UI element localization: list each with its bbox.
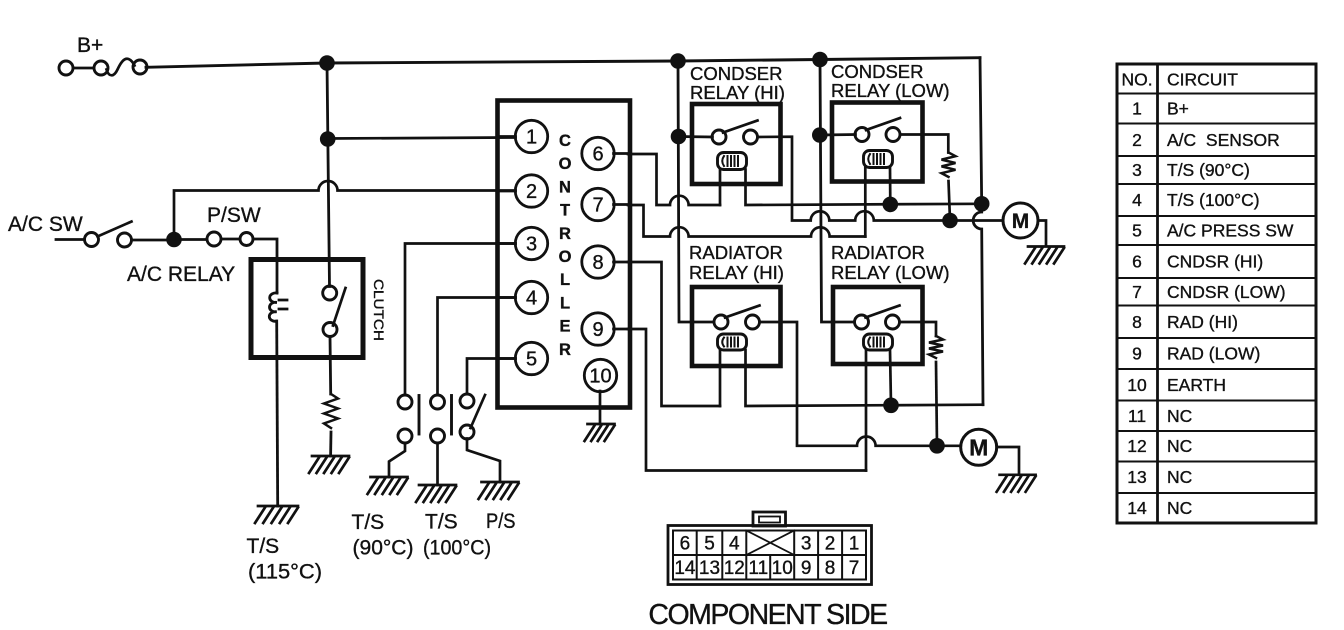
svg-text:5: 5 (526, 349, 537, 371)
svg-text:11: 11 (1128, 406, 1146, 426)
switch A/C SW contact left (85, 233, 99, 247)
junction: rail / condser HI switch (671, 129, 687, 145)
switch T/S 90 bottom contact (398, 429, 412, 443)
condser HI switch blade (723, 121, 758, 133)
controller pin 7 (582, 188, 614, 220)
svg-text:6: 6 (592, 144, 603, 166)
svg-text:9: 9 (801, 558, 812, 579)
condser LOW switch contact right (886, 128, 900, 142)
ground: pin 10 earth (585, 424, 615, 441)
svg-text:T/S: T/S (247, 535, 280, 558)
stub wire pin 1 (500, 135, 516, 138)
A/C relay coil (inductor) (269, 293, 287, 321)
junction: A/C SW node (166, 232, 182, 248)
stub wire pin 3 (500, 242, 516, 245)
svg-text:6: 6 (680, 534, 691, 555)
switch P/S bottom contact (460, 425, 474, 439)
wire: junction to controller pin 1 (328, 138, 516, 139)
junction: resistor / radiator motor line (929, 438, 945, 454)
svg-text:A/C PRESS SW: A/C PRESS SW (1167, 221, 1294, 241)
ground: T/S 90 (368, 477, 408, 494)
relay box RADIATOR RELAY (LOW) (833, 287, 923, 364)
svg-text:2: 2 (1132, 130, 1142, 150)
pin table column divider (1156, 64, 1159, 523)
ground below A/C relay resistor (309, 456, 349, 473)
svg-text:P/S: P/S (486, 510, 516, 533)
wire: condser LOW coil left lead riser (from pin 7 line) (864, 168, 867, 237)
switch P/S top contact (460, 394, 474, 408)
wire: P/SW to A/C relay coil (253, 239, 277, 293)
svg-text:EARTH: EARTH (1167, 375, 1226, 395)
ground: radiator motor (997, 475, 1036, 492)
switch P/S blade (471, 395, 486, 428)
relay box RADIATOR RELAY (HI) (692, 287, 781, 366)
controller pin 4 (515, 281, 547, 313)
svg-text:COMPONENT SIDE: COMPONENT SIDE (648, 599, 887, 630)
junction: condser LOW coil / coil feed line (883, 197, 899, 213)
wire: pin 3 to T/S 90 switch (405, 244, 516, 396)
switch T/S 100 top contact (431, 395, 445, 409)
wire: condser LOW coil right lead to coil feed line (889, 168, 892, 205)
wire: A/C SW to junction (132, 239, 168, 242)
ground: condenser motor (1025, 247, 1064, 264)
radiator LOW switch contact left (855, 315, 869, 329)
relay box CONDSER RELAY (LOW) (832, 103, 923, 182)
resistor below A/C relay (324, 394, 338, 428)
radiator HI switch contact right (746, 315, 760, 329)
wire: T/S 90 to ground (389, 443, 405, 477)
svg-text:8: 8 (592, 252, 603, 274)
radiator HI relay coil (718, 334, 747, 350)
wire: T/S 100 to ground (436, 443, 439, 485)
svg-text:P/SW: P/SW (207, 204, 261, 227)
wire: radiator HI switch out down to radiator motor line (760, 322, 961, 446)
wire: pin 9 to radiator LOW coil (628, 329, 866, 471)
wire: vertical rail from B+ junction down to A/C relay contact (327, 63, 330, 287)
wire: pin 10 to earth ground (599, 391, 602, 424)
svg-text:7: 7 (592, 195, 603, 217)
wire: junction to P/SW (181, 238, 207, 241)
wire: rail tap to condser LOW switch (820, 133, 856, 136)
svg-text:5: 5 (1132, 221, 1142, 241)
junction: radiator LOW coil / coil feed line (883, 398, 899, 414)
motor M condenser fan (1003, 203, 1038, 238)
controller pin 8 (582, 246, 614, 278)
junction: left rail / pin 1 wire (320, 131, 336, 147)
controller pin 9 (582, 313, 614, 345)
connector keyed cell X (746, 531, 794, 556)
wire: right B+ rail feeding relay coils (jogs around condenser motor line) (973, 58, 983, 405)
controller pin 2 (515, 175, 547, 207)
wire: A/C SW node riser to pin 2 (hop over rail) (174, 181, 516, 240)
svg-text:A/C RELAY: A/C RELAY (127, 263, 235, 286)
controller pin 1 (515, 120, 547, 152)
stub wire pin 2 (500, 190, 516, 193)
svg-text:1: 1 (849, 534, 860, 555)
svg-text:11: 11 (748, 558, 768, 579)
svg-text:NC: NC (1167, 467, 1192, 487)
svg-text:1: 1 (526, 127, 537, 149)
svg-text:T/S: T/S (425, 511, 458, 534)
svg-text:7: 7 (1132, 282, 1142, 302)
condser LOW switch contact left (855, 128, 869, 142)
wire: condser HI coil right lead to B+ coil feed line (746, 170, 982, 206)
svg-text:12: 12 (1127, 436, 1146, 456)
svg-text:8: 8 (1132, 312, 1142, 332)
svg-text:12: 12 (724, 558, 745, 579)
controller pin 5 (515, 342, 547, 374)
svg-text:RADIATOR: RADIATOR (689, 242, 783, 263)
svg-text:2: 2 (825, 534, 836, 555)
svg-text:8: 8 (825, 558, 836, 579)
wire: resistor to radiator motor line (936, 362, 937, 446)
wire: pin 7 to condser LOW coil (628, 205, 865, 237)
svg-text:RAD (HI): RAD (HI) (1167, 312, 1238, 332)
radiator HI switch contact left (714, 315, 728, 329)
svg-text:4: 4 (729, 534, 740, 555)
svg-text:CNDSR (HI): CNDSR (HI) (1167, 252, 1263, 272)
wire: condenser motor to ground (1038, 221, 1046, 246)
connector row divider (673, 554, 866, 556)
svg-text:RADIATOR: RADIATOR (831, 242, 925, 263)
svg-text:CONDSER: CONDSER (831, 61, 924, 82)
svg-text:NO.: NO. (1121, 70, 1152, 90)
wire: radiator LOW switch out to dropping resistor (900, 322, 937, 336)
stub wire pin 4 (500, 296, 516, 299)
ground: T/S (115C) (255, 506, 298, 523)
svg-text:NC: NC (1167, 498, 1192, 518)
svg-text:CLUTCH: CLUTCH (371, 279, 386, 341)
wire: radiator LOW coil right lead to coil feed line (890, 350, 891, 405)
wire: rail from B+ to condser LOW contact and radiator LOW contact (820, 60, 855, 323)
svg-text:3: 3 (801, 534, 812, 555)
svg-text:5: 5 (704, 534, 715, 555)
pin table row lines (1117, 94, 1316, 494)
wire: pin 8 to radiator HI coil (628, 262, 720, 406)
A/C relay clutch blade (333, 288, 346, 326)
svg-text:RELAY (LOW): RELAY (LOW) (831, 80, 950, 101)
wire: pin 6 to condser HI coil (628, 154, 720, 205)
svg-text:(100°C): (100°C) (423, 537, 491, 560)
controller pin 6 (582, 137, 614, 169)
svg-text:13: 13 (1127, 467, 1146, 487)
radiator HI switch blade (725, 306, 760, 318)
svg-text:(90°C): (90°C) (353, 537, 414, 560)
condser HI relay coil (718, 153, 747, 170)
connector tab (753, 512, 786, 526)
wire: radiator HI coil left lead (to pin 8 line) (719, 350, 722, 406)
ground: T/S 100 (416, 485, 456, 502)
ground: P/S (479, 482, 519, 499)
wire: coil to T/S(115) ground (277, 321, 278, 506)
svg-text:14: 14 (674, 558, 696, 579)
radiator LOW relay coil (864, 334, 893, 350)
svg-text:7: 7 (849, 558, 860, 579)
condser LOW relay coil (864, 151, 893, 168)
junction: rail / condser coil feed (974, 196, 990, 212)
svg-text:M: M (1012, 210, 1030, 233)
svg-text:RELAY (HI): RELAY (HI) (690, 82, 785, 103)
resistor: radiator motor dropping (929, 336, 943, 358)
switch P/SW contact right (240, 233, 253, 246)
wire: condser LOW switch out to dropping resistor (900, 135, 948, 153)
svg-text:RAD (LOW): RAD (LOW) (1167, 344, 1260, 364)
wire: P/S to ground (467, 439, 500, 483)
fuse F1 terminals (59, 61, 73, 75)
svg-text:10: 10 (1127, 375, 1147, 395)
svg-text:13: 13 (699, 558, 720, 579)
wire: resistor to condenser motor line (949, 181, 951, 221)
pin table frame (1117, 64, 1316, 523)
svg-text:(115°C): (115°C) (248, 561, 322, 584)
junction: B+ line / left rail (319, 55, 335, 71)
junction: resistor / condenser motor line (942, 213, 958, 229)
A/C relay clutch contact bottom (323, 323, 337, 337)
condser LOW switch blade (866, 118, 900, 130)
wire: pin 4 to T/S 100 switch (438, 298, 516, 396)
svg-text:RELAY (LOW): RELAY (LOW) (831, 262, 950, 283)
svg-text:3: 3 (1132, 160, 1142, 180)
svg-text:RELAY (HI): RELAY (HI) (689, 262, 784, 283)
svg-text:9: 9 (1132, 344, 1142, 364)
wire: radiator motor to ground (997, 447, 1019, 474)
motor M radiator fan (961, 429, 997, 465)
svg-text:10: 10 (589, 366, 611, 388)
svg-text:10: 10 (772, 558, 793, 579)
wire: condser HI coil left lead (to pin 6 line) (719, 170, 722, 206)
junction: rail / condser LOW switch (812, 127, 828, 143)
switch P/SW contact left (207, 232, 221, 246)
stub wire pin 8 (614, 261, 629, 264)
svg-text:4: 4 (526, 288, 537, 310)
switch T/S 90 top contact (398, 395, 412, 409)
A/C relay clutch contact top (323, 286, 337, 300)
stub wire pin 7 (614, 203, 629, 206)
wire: B+ top feed line (146, 58, 980, 68)
condser HI switch contact right (744, 130, 758, 144)
svg-text:T/S: T/S (352, 511, 385, 534)
stub wire pin 9 (614, 328, 629, 331)
junction: B+ / condser HI rail (670, 53, 686, 69)
switch A/C SW blade (98, 222, 132, 237)
svg-text:CIRCUIT: CIRCUIT (1167, 70, 1238, 90)
wire: resistor to ground (329, 432, 332, 456)
svg-text:NC: NC (1167, 406, 1192, 426)
wire: clutch contact to resistor (329, 337, 333, 395)
wire: condser HI switch out, down to condenser motor line (758, 137, 1003, 221)
connector inner frame (673, 531, 866, 580)
condser HI switch contact left (712, 130, 726, 144)
switch A/C SW contact right (118, 233, 132, 247)
svg-text:A/C SW: A/C SW (8, 213, 83, 236)
controller box (498, 101, 631, 408)
svg-text:14: 14 (1127, 498, 1147, 518)
wire: rail from B+ to condser HI contact and radiator HI contact (678, 61, 714, 322)
svg-text:CNDSR (LOW): CNDSR (LOW) (1167, 282, 1286, 302)
svg-text:CONDSER: CONDSER (690, 63, 783, 84)
wire: rail tap to condser HI switch (679, 135, 713, 138)
stub wire pin 6 (614, 152, 629, 155)
resistor: condser motor dropping (942, 153, 956, 177)
svg-text:B+: B+ (1167, 99, 1189, 119)
svg-text:T/S (100°C): T/S (100°C) (1167, 190, 1260, 210)
relay box A/C RELAY (251, 260, 363, 358)
svg-text:4: 4 (1132, 190, 1142, 210)
connector cell dividers (697, 531, 842, 580)
svg-text:9: 9 (592, 319, 603, 341)
wire between B+ terminals (73, 67, 94, 70)
svg-text:3: 3 (526, 234, 537, 256)
svg-text:A/C SENSOR: A/C SENSOR (1167, 130, 1280, 150)
relay box CONDSER RELAY (HI) (692, 104, 781, 184)
wire: between P/SW contacts (221, 238, 240, 241)
radiator LOW switch blade (866, 306, 900, 318)
svg-text:B+: B+ (77, 34, 103, 57)
switch T/S 100 bar (450, 396, 453, 435)
wire: radiator LOW coil left lead riser (from pin 9 line) (865, 350, 868, 471)
svg-text:1: 1 (1132, 99, 1142, 119)
svg-text:NC: NC (1167, 436, 1192, 456)
junction: B+ / condser LOW rail (812, 52, 828, 68)
wire: radiator HI coil right lead along coil feed line to B+ rail (746, 350, 984, 406)
controller pin 3 (515, 227, 547, 259)
svg-text:T/S (90°C): T/S (90°C) (1167, 160, 1250, 180)
connector outer shell (668, 526, 872, 585)
wire: stub left of A/C SW (56, 238, 85, 241)
fuse element squiggle (107, 59, 135, 76)
switch T/S 90 bar (418, 396, 421, 435)
svg-text:M: M (969, 434, 988, 460)
svg-text:6: 6 (1132, 252, 1142, 272)
radiator LOW switch contact right (886, 315, 900, 329)
switch T/S 100 bottom contact (431, 429, 445, 443)
svg-text:2: 2 (526, 181, 537, 203)
controller pin 10 (584, 359, 616, 391)
stub wire pin 5 (500, 357, 516, 360)
wire: pin 5 to P/S switch (467, 359, 516, 395)
